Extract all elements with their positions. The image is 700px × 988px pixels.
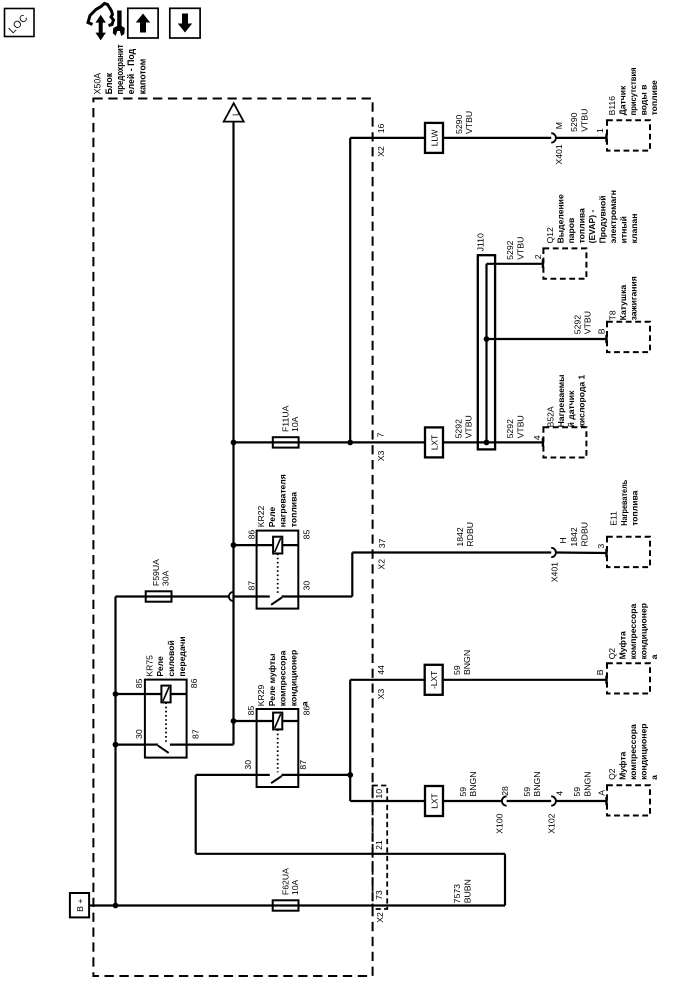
svg-text:RDBU: RDBU <box>579 522 589 547</box>
svg-text:F62UA: F62UA <box>280 868 290 895</box>
svg-text:Катушка: Катушка <box>618 285 628 321</box>
svg-text:Нагреватель: Нагреватель <box>619 480 629 526</box>
svg-text:28: 28 <box>500 786 510 796</box>
svg-text:10A: 10A <box>290 416 300 432</box>
svg-text:елей - Под: елей - Под <box>126 48 136 94</box>
svg-text:капотом: капотом <box>137 59 147 95</box>
svg-text:клапан: клапан <box>629 214 639 244</box>
svg-text:Q2: Q2 <box>607 648 617 660</box>
svg-text:59: 59 <box>572 787 582 797</box>
svg-text:BNGN: BNGN <box>468 771 478 796</box>
svg-text:Реле: Реле <box>155 656 165 677</box>
svg-text:VTBU: VTBU <box>515 415 525 438</box>
svg-text:BNGN: BNGN <box>532 771 542 796</box>
svg-text:F59UA: F59UA <box>151 559 161 586</box>
svg-text:X401: X401 <box>554 144 564 164</box>
svg-text:кондиционер: кондиционер <box>638 603 648 659</box>
svg-text:LXT: LXT <box>429 793 439 808</box>
svg-text:топлива: топлива <box>630 490 640 525</box>
svg-text:30: 30 <box>134 729 144 739</box>
svg-text:7: 7 <box>376 432 386 437</box>
svg-text:а: а <box>649 775 659 780</box>
svg-text:L: L <box>230 111 240 116</box>
svg-text:85: 85 <box>301 530 311 540</box>
svg-text:Продувной: Продувной <box>597 195 607 243</box>
svg-text:5292: 5292 <box>505 419 515 438</box>
svg-text:B +: B + <box>75 899 85 912</box>
svg-text:4: 4 <box>532 435 542 440</box>
svg-text:электромагн: электромагн <box>608 190 618 243</box>
svg-text:Муфта: Муфта <box>617 751 627 779</box>
svg-text:X2: X2 <box>375 912 385 923</box>
svg-text:VTBU: VTBU <box>515 237 525 260</box>
svg-text:VTBU: VTBU <box>579 109 589 132</box>
svg-text:B116: B116 <box>607 96 617 116</box>
svg-text:10: 10 <box>374 789 384 799</box>
svg-text:1842: 1842 <box>569 527 579 546</box>
svg-text:E11: E11 <box>608 511 618 526</box>
svg-text:3: 3 <box>596 544 606 549</box>
svg-text:A: A <box>597 790 607 796</box>
svg-text:M: M <box>554 122 564 129</box>
svg-text:передачи: передачи <box>177 636 187 676</box>
svg-text:й датчик: й датчик <box>566 390 576 427</box>
svg-text:KR75: KR75 <box>144 655 154 677</box>
svg-text:30A: 30A <box>161 570 171 586</box>
svg-text:кондиционер: кондиционер <box>289 650 299 706</box>
svg-text:Q2: Q2 <box>607 768 617 780</box>
svg-text:VTBU: VTBU <box>583 311 593 334</box>
svg-text:5290: 5290 <box>569 112 579 131</box>
svg-text:KR22: KR22 <box>256 505 266 527</box>
svg-text:5292: 5292 <box>454 419 464 438</box>
svg-text:30: 30 <box>302 581 312 591</box>
svg-text:5292: 5292 <box>505 240 515 259</box>
svg-text:59: 59 <box>458 787 468 797</box>
svg-text:X50A: X50A <box>93 73 103 95</box>
svg-text:KR29: KR29 <box>256 684 266 706</box>
svg-text:5292: 5292 <box>572 315 582 334</box>
svg-text:87: 87 <box>190 729 200 739</box>
svg-text:F11UA: F11UA <box>281 405 291 432</box>
svg-text:Муфта: Муфта <box>617 631 627 659</box>
svg-text:топлива: топлива <box>576 208 586 243</box>
svg-text:присутствия: присутствия <box>628 67 638 115</box>
svg-text:X2: X2 <box>377 559 387 570</box>
svg-text:Q12: Q12 <box>545 227 555 243</box>
svg-text:1: 1 <box>595 128 605 133</box>
svg-text:T8: T8 <box>607 310 617 320</box>
svg-text:X3: X3 <box>376 689 386 700</box>
svg-text:21: 21 <box>374 840 384 850</box>
svg-text:(EVAP) -: (EVAP) - <box>587 210 597 244</box>
svg-text:59: 59 <box>522 787 532 797</box>
svg-text:85: 85 <box>246 706 256 716</box>
svg-text:компрессора: компрессора <box>628 604 638 660</box>
svg-text:Нагреваемы: Нагреваемы <box>556 374 566 427</box>
svg-text:BUBN: BUBN <box>462 879 472 903</box>
svg-text:воды в: воды в <box>639 85 649 116</box>
svg-text:87: 87 <box>298 760 308 770</box>
svg-text:компрессора: компрессора <box>278 650 288 706</box>
svg-text:-LXT: -LXT <box>429 671 439 689</box>
svg-text:X3: X3 <box>376 451 386 462</box>
svg-text:кислорода 1: кислорода 1 <box>577 374 587 427</box>
svg-text:VTBU: VTBU <box>464 415 474 438</box>
svg-text:10A: 10A <box>290 879 300 895</box>
svg-text:30: 30 <box>243 760 253 770</box>
svg-text:X401: X401 <box>550 562 560 582</box>
svg-text:а: а <box>299 701 309 706</box>
svg-text:44: 44 <box>376 665 386 675</box>
svg-text:J110: J110 <box>476 233 486 251</box>
svg-text:73: 73 <box>374 890 384 900</box>
svg-text:Датчик: Датчик <box>617 85 627 115</box>
svg-text:X102: X102 <box>546 813 556 833</box>
svg-text:компрессора: компрессора <box>628 724 638 780</box>
svg-text:Реле муфты: Реле муфты <box>267 654 277 707</box>
svg-text:VTBU: VTBU <box>464 111 474 134</box>
svg-text:нагревателя: нагревателя <box>278 474 288 527</box>
svg-text:X2: X2 <box>376 146 386 157</box>
svg-text:4: 4 <box>554 791 564 796</box>
svg-text:BNGN: BNGN <box>462 650 472 675</box>
svg-text:RDBU: RDBU <box>465 522 475 547</box>
svg-text:а: а <box>649 654 659 659</box>
svg-text:топлива: топлива <box>289 492 299 527</box>
svg-text:B: B <box>595 669 605 675</box>
svg-text:H: H <box>558 537 568 543</box>
svg-text:X100: X100 <box>495 813 505 833</box>
svg-text:кондиционер: кондиционер <box>638 723 648 779</box>
svg-text:37: 37 <box>377 538 387 548</box>
svg-text:зажигания: зажигания <box>629 276 639 320</box>
svg-text:Реле: Реле <box>267 507 277 528</box>
svg-text:итный: итный <box>618 216 628 243</box>
svg-text:B: B <box>596 328 606 334</box>
svg-text:Выделение: Выделение <box>555 194 565 243</box>
svg-text:предохранит: предохранит <box>115 44 125 95</box>
svg-text:16: 16 <box>376 123 386 133</box>
svg-text:LLW: LLW <box>429 130 439 147</box>
svg-text:силовой: силовой <box>166 640 176 676</box>
svg-text:59: 59 <box>452 665 462 675</box>
svg-text:5290: 5290 <box>454 115 464 134</box>
svg-text:86: 86 <box>301 706 311 716</box>
svg-text:паров: паров <box>566 218 576 244</box>
svg-text:7573: 7573 <box>452 884 462 903</box>
svg-text:86: 86 <box>247 530 257 540</box>
svg-text:B52A: B52A <box>545 406 555 427</box>
svg-text:LXT: LXT <box>429 435 439 450</box>
svg-text:топливе: топливе <box>649 80 659 115</box>
svg-text:Блок: Блок <box>104 72 114 94</box>
svg-text:86: 86 <box>189 678 199 688</box>
svg-text:87: 87 <box>247 581 257 591</box>
svg-text:BNGN: BNGN <box>582 771 592 796</box>
svg-text:85: 85 <box>134 678 144 688</box>
svg-text:1842: 1842 <box>455 527 465 546</box>
svg-text:2: 2 <box>533 254 543 259</box>
